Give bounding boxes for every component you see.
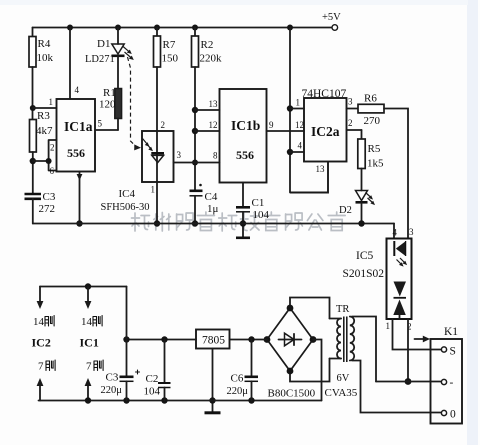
wire bridge plus to 7805 input <box>230 339 268 341</box>
resistor R6 270 <box>358 93 384 128</box>
svg-text:1μ: 1μ <box>207 203 219 215</box>
wire pin 4 IC2a <box>290 151 304 153</box>
junction dot C1 on ground rail <box>240 220 246 226</box>
svg-text:C1: C1 <box>252 197 265 209</box>
wire C4 to ground rail <box>194 196 196 224</box>
junction dot IC4 pin1 on ground rail <box>154 220 160 226</box>
label 7 pin (IC1) <box>86 360 103 373</box>
terminal 0 <box>441 410 446 415</box>
dashed IR beam to IC4 <box>128 57 142 150</box>
IC4 internal photodiode <box>143 139 165 163</box>
wire 7805 ground leg <box>212 349 214 412</box>
arrow from IC2 pin7 <box>37 378 44 401</box>
wire bridge top to transformer primary <box>290 298 330 319</box>
junction dot pin2 on minus wire <box>405 378 412 385</box>
svg-text:3: 3 <box>348 97 353 107</box>
wire C3 to bottom rail <box>126 381 128 400</box>
terminal minus <box>441 379 446 384</box>
junction dot rail/IC supply column <box>123 336 129 342</box>
svg-text:3: 3 <box>177 150 182 160</box>
+5V rail wire <box>33 27 332 29</box>
resistor R1 <box>99 87 122 119</box>
junction dot bottom rail C6 <box>248 397 254 403</box>
wire C3 to ground rail <box>32 199 34 224</box>
svg-text:R4: R4 <box>38 38 51 50</box>
solid state relay IC5 S201S02 box <box>343 239 412 320</box>
svg-text:220μ: 220μ <box>101 385 123 396</box>
junction dot (R2 column) <box>192 25 198 31</box>
arrow toward K1 <box>415 336 431 343</box>
svg-text:4: 4 <box>393 228 398 238</box>
svg-text:C3: C3 <box>106 372 119 384</box>
capacitor C3 220u <box>101 370 140 396</box>
IC5 internal LED <box>394 241 407 267</box>
svg-text:+5V: +5V <box>322 12 341 23</box>
wire R7 down through IC4 to ground rail <box>156 67 158 224</box>
opto receiver IC4 SFH506-30 box <box>101 131 174 213</box>
+5V terminal circle <box>332 25 338 31</box>
svg-text:4: 4 <box>75 85 80 95</box>
junction dot pin13 branch <box>192 107 198 113</box>
svg-text:9: 9 <box>269 120 274 130</box>
IC5 internal triac <box>393 282 406 320</box>
svg-text:2: 2 <box>50 143 55 153</box>
wire R4 to R3 <box>32 67 34 120</box>
junction dot (D1 column) <box>115 25 121 31</box>
junction dot bottom rail C2 <box>161 397 167 403</box>
ground symbol under C1 <box>236 237 250 240</box>
node dot pins 2/6 branch <box>46 158 52 164</box>
svg-text:4k7: 4k7 <box>36 125 53 137</box>
svg-text:556: 556 <box>236 148 254 162</box>
transformer TR <box>325 304 358 399</box>
svg-text:R6: R6 <box>364 93 377 105</box>
wire pin 5 to R1 <box>95 129 118 131</box>
timer IC1b box <box>220 89 267 183</box>
wire pin 12 <box>195 130 220 132</box>
svg-text:1k5: 1k5 <box>367 158 384 170</box>
bottom ground rail <box>39 400 322 402</box>
svg-text:10k: 10k <box>37 52 54 64</box>
IC supply top wire <box>40 286 127 288</box>
svg-text:LD271: LD271 <box>85 54 115 65</box>
svg-text:104: 104 <box>144 386 161 398</box>
svg-text:1: 1 <box>386 321 391 331</box>
flip-flop IC2a box <box>304 98 347 162</box>
resistor R5 1k5 <box>358 130 384 170</box>
LED D2 <box>339 191 375 217</box>
wire 7805 output rail <box>127 339 197 341</box>
resistor R2 <box>192 28 223 68</box>
wire IC1a bottom pin to ground rail <box>79 172 81 224</box>
wire +5V column to IC2a <box>289 28 291 193</box>
svg-text:C6: C6 <box>231 373 244 385</box>
bridge rectifier B80C1500 <box>264 305 317 400</box>
svg-text:272: 272 <box>39 203 56 215</box>
capacitor C1 104 <box>236 183 270 222</box>
svg-text:C4: C4 <box>205 191 218 203</box>
svg-text:556: 556 <box>67 146 85 160</box>
capacitor C4 1u <box>190 184 219 215</box>
svg-text:R5: R5 <box>368 143 381 155</box>
svg-text:4: 4 <box>298 141 303 151</box>
svg-text:SFH506-30: SFH506-30 <box>101 202 150 213</box>
resistor R7 <box>154 28 179 68</box>
node dot R3 bottom <box>30 158 36 164</box>
svg-text:13: 13 <box>209 99 219 109</box>
wire transformer primary bottom to bridge bottom <box>290 359 330 382</box>
wire supply column down to rail and C3 <box>126 287 128 376</box>
arrow to IC1 pin14 <box>85 287 92 310</box>
svg-text:D1: D1 <box>97 38 110 50</box>
wire C6 to bottom rail <box>251 381 253 400</box>
svg-text:TR: TR <box>336 304 349 315</box>
junction dot 7805 ground on bottom rail <box>209 397 215 403</box>
svg-text:12: 12 <box>295 120 304 130</box>
junction dot pin12 branch <box>192 128 198 134</box>
svg-text:IC2: IC2 <box>32 336 51 350</box>
junction dot bottom rail C3 <box>123 397 129 403</box>
svg-text:104: 104 <box>253 209 270 221</box>
junction dot rail C6 <box>248 336 254 342</box>
wire pin 1 IC2a <box>290 108 304 110</box>
ground symbol under 7805 <box>205 411 221 414</box>
svg-text:120: 120 <box>99 99 116 111</box>
wire IC5 pin1 to K1 S <box>393 319 442 350</box>
label 14 pin (IC1) <box>81 316 102 329</box>
junction dot IC1a bottom on ground rail <box>76 220 82 226</box>
svg-text:8: 8 <box>213 151 218 161</box>
pin tick below IC1a <box>77 174 83 181</box>
junction dot (R7 column) <box>154 25 160 31</box>
svg-text:IC1: IC1 <box>80 336 99 350</box>
junction dot supply wire IC1 <box>85 283 91 289</box>
svg-text:IC1b: IC1b <box>231 118 260 133</box>
junction dot pin8 wire <box>192 160 198 166</box>
wire D1 to R1 <box>117 56 119 89</box>
svg-text:C2: C2 <box>146 373 159 385</box>
wire transformer secondary top to minus rail <box>352 317 376 382</box>
wire secondary bottom to K1 0 <box>352 361 441 413</box>
wire pin 2 IC2a to R5 <box>347 129 362 131</box>
wire D2 to ground rail <box>361 202 363 223</box>
svg-text:12: 12 <box>209 120 218 130</box>
op-amp/timer IC1a box <box>57 99 96 172</box>
svg-text:2: 2 <box>348 118 353 128</box>
svg-text:S: S <box>450 346 456 358</box>
junction dot pin1 IC2a <box>287 105 293 111</box>
svg-text:7805: 7805 <box>202 335 225 347</box>
wire IC5 pin2 down <box>407 319 409 382</box>
svg-text:C3: C3 <box>43 191 56 203</box>
svg-text:S201S02: S201S02 <box>343 268 385 280</box>
svg-text:B80C1500: B80C1500 <box>268 388 316 400</box>
svg-text:6: 6 <box>50 166 55 176</box>
ground rail wire <box>33 223 394 225</box>
svg-text:IC4: IC4 <box>119 188 136 200</box>
resistor R4 <box>29 37 54 68</box>
svg-text:K1: K1 <box>444 326 458 338</box>
pin 13 extension box of IC2a <box>290 162 328 193</box>
wire R3 to C3 <box>32 152 34 194</box>
svg-text:R7: R7 <box>163 39 176 51</box>
svg-text:14: 14 <box>33 316 45 328</box>
svg-text:14: 14 <box>81 316 93 328</box>
regulator 7805 <box>196 330 230 349</box>
capacitor C6 220u <box>227 340 259 398</box>
junction dot (pin4 column) <box>67 25 73 31</box>
svg-text:0: 0 <box>450 409 456 421</box>
LED D1 LD271 <box>85 28 134 66</box>
wire R2 column down to C4 <box>194 67 196 190</box>
wire R6 to IC5 pin3 <box>384 109 408 239</box>
node dot pin1 branch <box>30 105 36 111</box>
arrow to IC2 pin14 <box>37 287 44 310</box>
svg-text:270: 270 <box>364 115 381 127</box>
wire pin 3 IC2a to R6 <box>347 108 359 110</box>
wire C1 to ground rail <box>242 212 244 237</box>
svg-text:1: 1 <box>296 98 301 108</box>
capacitor C2 104 <box>144 340 171 398</box>
svg-text:3: 3 <box>409 227 414 237</box>
svg-text:2: 2 <box>161 120 166 130</box>
svg-text:1: 1 <box>151 185 156 195</box>
svg-text:D2: D2 <box>339 205 352 216</box>
svg-text:220μ: 220μ <box>227 386 249 397</box>
svg-text:5: 5 <box>98 119 103 129</box>
wire to pins 2/6 <box>33 140 57 171</box>
junction dot pin4 IC2a <box>287 149 293 155</box>
wire pin 13 <box>195 109 220 111</box>
junction dot bottom rail IC1 <box>85 397 91 403</box>
capacitor C3 272 <box>25 191 56 215</box>
svg-text:IC5: IC5 <box>356 250 374 262</box>
svg-text:R2: R2 <box>201 39 214 51</box>
wire ground rail to IC5 pin4 <box>393 224 395 239</box>
svg-text:R1: R1 <box>103 87 116 99</box>
svg-text:13: 13 <box>316 164 326 174</box>
svg-text:6V: 6V <box>337 373 350 384</box>
resistor R3 <box>30 110 54 152</box>
junction dot D2 on ground rail <box>358 220 364 226</box>
svg-text:-: - <box>450 377 454 389</box>
node: rail junction at R4 column top corner <box>32 28 34 37</box>
svg-text:7: 7 <box>86 361 92 373</box>
junction dot rail C2 <box>161 336 167 342</box>
wire pin 4 from rail <box>69 28 71 100</box>
svg-text:220k: 220k <box>200 53 223 65</box>
svg-text:7: 7 <box>38 361 44 373</box>
arrow from IC1 pin7 <box>85 378 92 401</box>
wire pin 1 of IC1a <box>33 107 57 109</box>
relay box K1 <box>431 326 463 424</box>
junction dot (IC2a supply column) <box>287 25 293 31</box>
wire pin 9 IC1b to pin 12 IC2a <box>267 130 305 132</box>
wire C2 to bottom rail <box>164 388 166 401</box>
svg-text:IC1a: IC1a <box>64 119 93 134</box>
svg-text:IC2a: IC2a <box>311 124 340 139</box>
svg-text:R3: R3 <box>37 110 50 122</box>
wire bridge minus to bottom rail <box>313 340 322 401</box>
svg-text:CVA35: CVA35 <box>325 387 358 399</box>
terminal S <box>441 347 446 352</box>
svg-text:150: 150 <box>162 53 179 65</box>
wire R5 to D2 <box>361 169 363 191</box>
wire R1 to pin5 <box>117 119 119 131</box>
wire minus to K1 <box>376 381 441 383</box>
label 7 pin (IC2) <box>38 360 55 373</box>
wire IC4 pin3 to IC1b pin8 <box>174 162 220 164</box>
label 14 pin (IC2) <box>33 316 54 329</box>
junction dot C4 on ground rail <box>192 220 198 226</box>
svg-text:1: 1 <box>49 97 54 107</box>
